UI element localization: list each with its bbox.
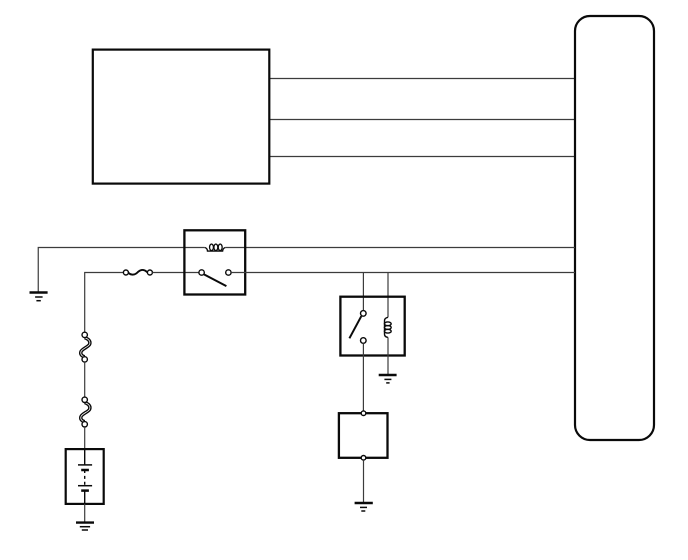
terminal pin (top of load box) — [361, 411, 366, 416]
wire W2 (module to connector, middle) — [270, 119, 576, 121]
wire: battery branch corner to fuse — [85, 273, 124, 333]
wire W1 (module to connector, top) — [270, 78, 576, 80]
wire: coil to ground G2 — [387, 337, 389, 374]
relay K1 box — [184, 230, 245, 294]
control module box M1 — [93, 50, 269, 184]
wire: fusible link to battery — [84, 427, 86, 449]
relay K2 box — [340, 297, 404, 356]
wire: ground branch to coil feed (node at left) — [38, 248, 205, 293]
battery box BAT — [66, 449, 104, 504]
terminal pin (bottom of load box) — [361, 456, 366, 461]
ground G4 — [76, 523, 94, 530]
switch S1 (relay K1 contacts) — [199, 270, 231, 286]
wire: drop to relay K2 coil — [387, 273, 389, 318]
ground G2 — [379, 375, 397, 383]
wire W3 (module to connector, bottom) — [270, 156, 576, 158]
switch S2 (relay K2 contacts) — [349, 311, 366, 344]
ground G3 — [355, 503, 373, 511]
wire: between fusible links — [84, 362, 86, 397]
fuse F1 — [123, 270, 152, 275]
wire: switch output to connector — [231, 272, 575, 274]
fusible link FL1 — [81, 332, 90, 362]
wire: drop to relay K2 switch — [362, 273, 364, 311]
wire: fuse to relay K1 switch — [152, 272, 199, 274]
fusible link FL2 — [81, 397, 90, 427]
load box B1 — [339, 413, 388, 458]
wire: relay K2 switch to load box — [362, 343, 364, 411]
inductor L1 (relay K1 coil) — [205, 244, 226, 251]
wire: load box to ground G3 — [363, 460, 365, 502]
wire: battery to ground G4 — [84, 504, 86, 522]
connector block J1 (tall rounded) — [575, 16, 654, 440]
inductor L2 (relay K2 coil) — [384, 317, 391, 337]
ground G1 — [30, 293, 48, 301]
battery cell symbol — [78, 449, 92, 504]
wire: coil output to connector — [225, 247, 575, 249]
